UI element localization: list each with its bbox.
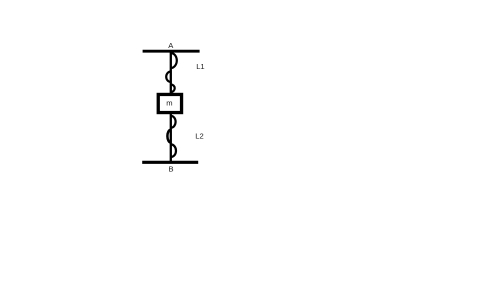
top support bar (ceiling) <box>143 50 200 53</box>
spring L2 coil loop 2 (left) <box>167 130 170 143</box>
spring L1 coil loop 1 (right) <box>171 53 177 68</box>
svg-text:L1: L1 <box>196 62 204 71</box>
bottom support bar (floor) <box>142 161 198 164</box>
spring L2 coil loop 3 (right) <box>171 144 176 157</box>
svg-text:m: m <box>166 99 172 108</box>
wire: top spring axis <box>170 52 172 95</box>
mass block m <box>158 94 181 112</box>
spring L1 coil loop 2 (left) <box>166 72 171 83</box>
spring L1 coil loop 3 (right) <box>171 85 175 93</box>
spring L2 coil loop 1 (right) <box>171 116 176 128</box>
svg-text:B: B <box>168 164 173 173</box>
wire: bottom spring axis <box>170 113 172 162</box>
svg-text:L2: L2 <box>195 131 203 140</box>
